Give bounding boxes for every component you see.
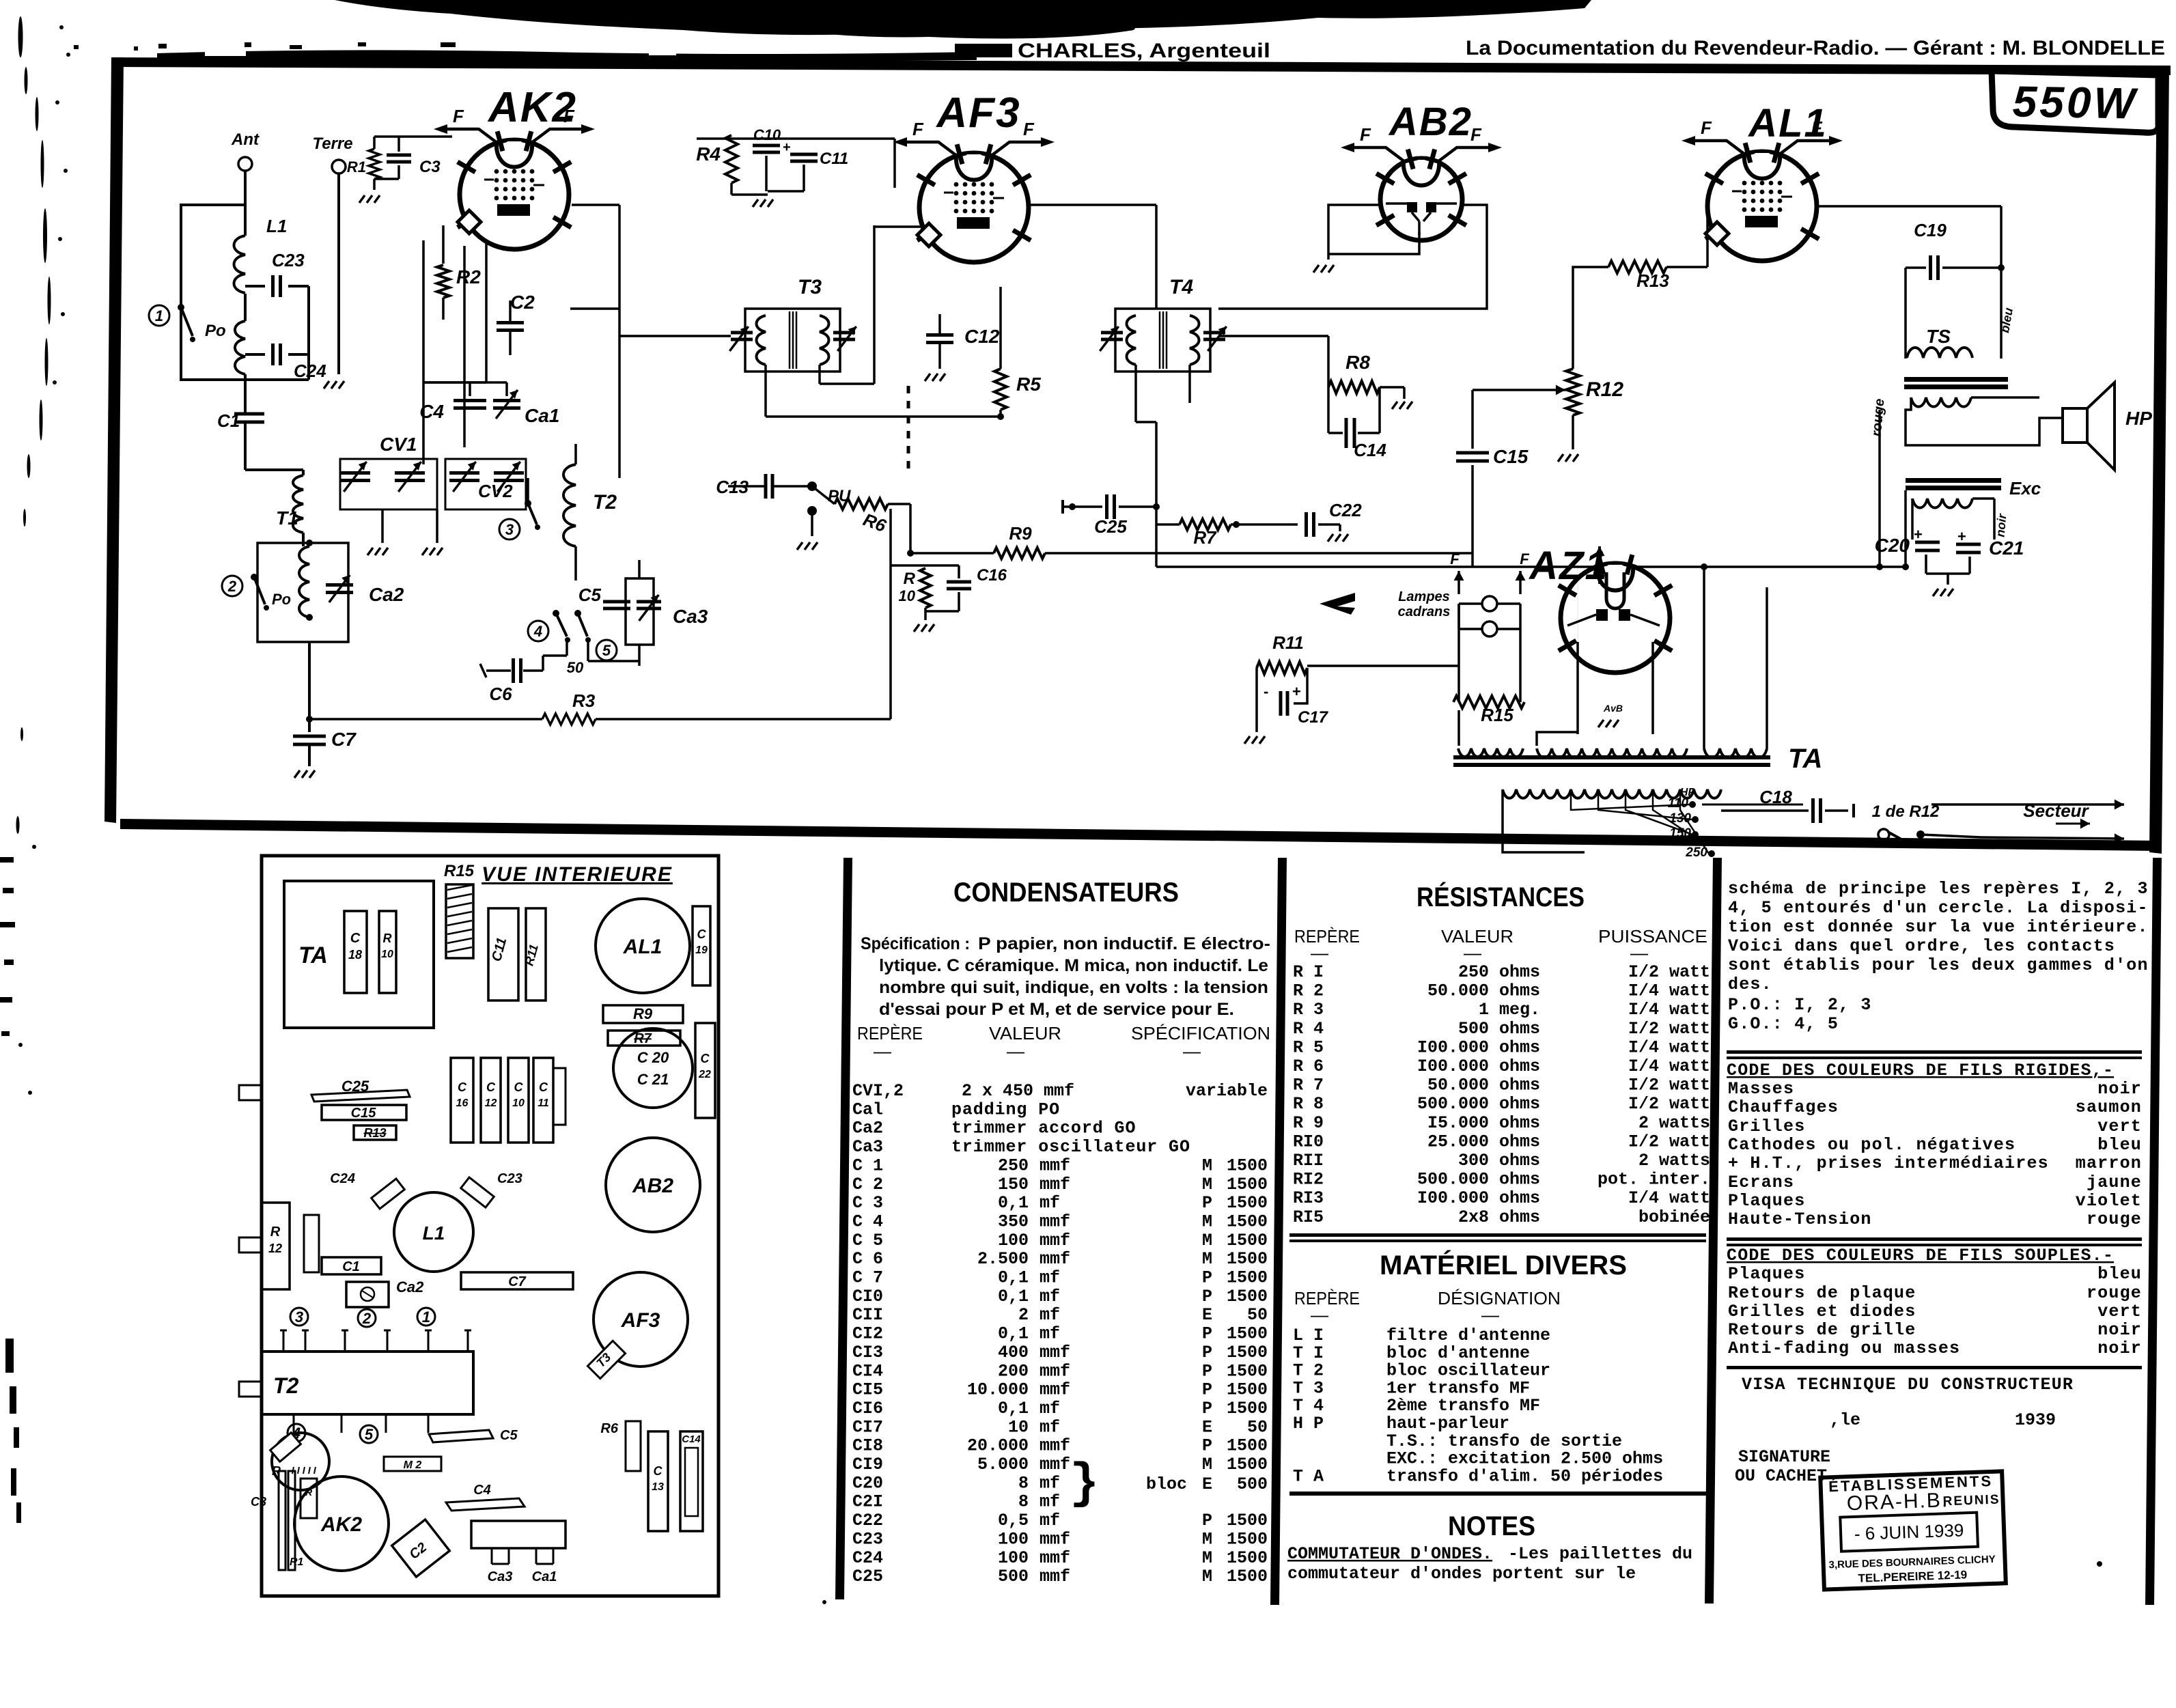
svg-text:C5: C5 (500, 1428, 518, 1443)
svg-text:500.000 ohms: 500.000 ohms (1417, 1094, 1540, 1114)
svg-text:VISA TECHNIQUE DU CONSTRUCTEUR: VISA TECHNIQUE DU CONSTRUCTEUR (1742, 1375, 2074, 1395)
svg-text:noir: noir (2097, 1320, 2142, 1340)
svg-text:500: 500 (998, 1567, 1029, 1586)
svg-text:jaune: jaune (2087, 1173, 2142, 1192)
svg-text:vert: vert (2097, 1117, 2142, 1136)
svg-text:rouge: rouge (2087, 1209, 2142, 1229)
svg-text:+: + (1292, 683, 1301, 700)
svg-text:P: P (1202, 1324, 1212, 1344)
svg-text:100: 100 (998, 1548, 1029, 1568)
svg-text:TA: TA (298, 942, 328, 968)
svg-text:M: M (1202, 1175, 1212, 1194)
svg-text:R7: R7 (1193, 527, 1217, 548)
svg-text:—: — (1630, 942, 1648, 963)
svg-text:C4: C4 (419, 401, 444, 422)
svg-text:1500: 1500 (1227, 1231, 1268, 1250)
svg-text:Chauffages: Chauffages (1728, 1097, 1839, 1117)
svg-text:50: 50 (1247, 1305, 1268, 1325)
svg-text:C7: C7 (331, 729, 357, 750)
svg-text:REUNIS: REUNIS (1942, 1492, 2000, 1509)
svg-text:R1: R1 (347, 158, 366, 176)
svg-text:0,1: 0,1 (998, 1193, 1029, 1213)
svg-text:mmf: mmf (1040, 1380, 1070, 1400)
svg-text:150: 150 (998, 1175, 1029, 1194)
svg-text:mf: mf (1040, 1324, 1060, 1344)
svg-text:P: P (1202, 1511, 1212, 1530)
svg-text:C16: C16 (977, 566, 1007, 585)
svg-text:1500: 1500 (1227, 1455, 1268, 1474)
svg-text:filtre d'antenne: filtre d'antenne (1386, 1326, 1550, 1345)
svg-text:10: 10 (512, 1097, 525, 1109)
svg-text:CII: CII (852, 1305, 883, 1325)
svg-text:I/4 watt: I/4 watt (1628, 1188, 1710, 1208)
svg-text:bloc: bloc (1146, 1474, 1187, 1494)
svg-text:C24: C24 (330, 1171, 355, 1186)
svg-text:C4: C4 (473, 1483, 491, 1498)
svg-text:—: — (1007, 1041, 1024, 1061)
svg-text:AK2: AK2 (320, 1513, 362, 1536)
svg-text:C 6: C 6 (852, 1249, 883, 1269)
svg-text:R5: R5 (1016, 374, 1041, 395)
svg-text:F: F (453, 106, 464, 126)
svg-text:schéma de principe les repères: schéma de principe les repères I, 2, 3 (1728, 879, 2149, 899)
svg-text:mf: mf (1040, 1492, 1060, 1512)
svg-text:Plaques: Plaques (1728, 1191, 1805, 1211)
svg-text:500 ohms: 500 ohms (1458, 1019, 1540, 1039)
svg-text:0,1: 0,1 (998, 1324, 1029, 1344)
svg-text:CV1: CV1 (380, 434, 417, 455)
svg-text:trimmer accord GO: trimmer accord GO (951, 1119, 1136, 1138)
svg-text:100: 100 (998, 1529, 1029, 1549)
svg-text:250: 250 (1685, 845, 1707, 860)
svg-text:R 7: R 7 (1293, 1076, 1324, 1095)
svg-text:C25: C25 (852, 1567, 883, 1586)
svg-text:T3: T3 (798, 276, 822, 298)
svg-text:F: F (1360, 124, 1371, 145)
svg-text:CI9: CI9 (852, 1455, 883, 1474)
svg-text:mmf: mmf (1040, 1175, 1070, 1194)
svg-text:L I: L I (1293, 1326, 1324, 1345)
svg-text:C: C (514, 1080, 524, 1094)
svg-text:Ca3: Ca3 (852, 1137, 883, 1157)
svg-text:8: 8 (1018, 1473, 1029, 1493)
svg-text:C15: C15 (351, 1106, 377, 1121)
svg-text:1500: 1500 (1227, 1249, 1268, 1269)
svg-text:C 5: C 5 (852, 1231, 883, 1250)
svg-text:1939: 1939 (2015, 1410, 2056, 1430)
svg-text:+: + (783, 140, 791, 155)
svg-text:200: 200 (998, 1361, 1029, 1381)
svg-text:C17: C17 (1298, 708, 1329, 727)
svg-text:M: M (1202, 1212, 1212, 1231)
svg-text:R 3: R 3 (1293, 1000, 1324, 1020)
svg-text:1500: 1500 (1227, 1567, 1268, 1586)
svg-text:R8: R8 (1345, 352, 1370, 373)
svg-text:C23: C23 (272, 250, 305, 270)
svg-text:R: R (904, 570, 916, 588)
svg-text:Plaques: Plaques (1728, 1264, 1805, 1284)
svg-text:CI5: CI5 (852, 1380, 883, 1400)
svg-text:1500: 1500 (1227, 1175, 1268, 1194)
svg-text:I/2 watt: I/2 watt (1628, 1019, 1710, 1039)
svg-text:C 21: C 21 (637, 1071, 669, 1088)
svg-text:VUE INTERIEURE: VUE INTERIEURE (482, 863, 673, 886)
svg-text:C11: C11 (820, 150, 848, 168)
svg-text:}: } (1070, 1456, 1099, 1512)
svg-text:I/2 watt: I/2 watt (1628, 1132, 1710, 1151)
svg-text:mf: mf (1040, 1287, 1060, 1306)
svg-text:F: F (1520, 550, 1529, 568)
svg-text:1500: 1500 (1227, 1548, 1268, 1568)
svg-text:50: 50 (1247, 1417, 1268, 1437)
svg-text:bloc oscillateur: bloc oscillateur (1386, 1361, 1550, 1381)
svg-text:500: 500 (1237, 1474, 1268, 1494)
svg-text:250: 250 (998, 1156, 1029, 1175)
svg-text:1500: 1500 (1227, 1380, 1268, 1400)
svg-text:1500: 1500 (1227, 1212, 1268, 1231)
svg-text:M 2: M 2 (404, 1459, 422, 1471)
svg-text:E: E (1202, 1474, 1212, 1494)
svg-text:1 de R12: 1 de R12 (1872, 802, 1940, 821)
svg-text:1500: 1500 (1227, 1399, 1268, 1418)
svg-text:R2: R2 (456, 266, 481, 288)
svg-text:Grilles: Grilles (1728, 1117, 1805, 1136)
svg-text:R 2: R 2 (1293, 981, 1324, 1001)
svg-text:110: 110 (1668, 796, 1689, 811)
svg-text:H P: H P (1293, 1414, 1324, 1433)
svg-text:Lampes: Lampes (1398, 589, 1450, 604)
svg-text:8: 8 (1018, 1492, 1029, 1512)
svg-text:2 x 450 mmf: 2 x 450 mmf (962, 1081, 1074, 1101)
svg-text:OU CACHET: OU CACHET (1735, 1466, 1827, 1486)
svg-text:P: P (1202, 1380, 1212, 1400)
svg-text:10.000: 10.000 (967, 1380, 1029, 1400)
svg-text:P.O.: I, 2, 3: P.O.: I, 2, 3 (1728, 995, 1872, 1015)
svg-text:Ca1: Ca1 (532, 1569, 557, 1584)
svg-text:C3: C3 (251, 1495, 266, 1509)
svg-text:C25: C25 (1094, 516, 1127, 537)
svg-text:P: P (1202, 1193, 1212, 1213)
svg-text:Spécification :: Spécification : (861, 934, 970, 953)
svg-text:T 4: T 4 (1293, 1396, 1324, 1416)
svg-text:C 1: C 1 (852, 1156, 883, 1175)
svg-text:3: 3 (295, 1308, 303, 1326)
svg-text:,le: ,le (1830, 1410, 1860, 1430)
svg-text:transfo d'alim. 50 périodes: transfo d'alim. 50 périodes (1386, 1466, 1663, 1486)
svg-text:mf: mf (1040, 1511, 1060, 1530)
svg-text:1500: 1500 (1227, 1287, 1268, 1306)
svg-text:mmf: mmf (1040, 1529, 1070, 1549)
svg-text:10: 10 (1008, 1417, 1029, 1437)
svg-text:R I: R I (1293, 962, 1324, 982)
svg-text:25.000 ohms: 25.000 ohms (1427, 1132, 1540, 1151)
svg-text:E: E (1202, 1305, 1212, 1325)
svg-text:bloc d'antenne: bloc d'antenne (1386, 1343, 1530, 1363)
svg-text:C14: C14 (1354, 440, 1386, 460)
svg-text:C5: C5 (578, 585, 602, 605)
svg-text:R: R (383, 932, 392, 945)
svg-text:50: 50 (567, 659, 584, 676)
svg-text:CONDENSATEURS: CONDENSATEURS (953, 878, 1179, 908)
svg-text:C21: C21 (1989, 537, 2024, 559)
svg-text:F: F (1023, 119, 1035, 139)
svg-text:Ca3: Ca3 (673, 606, 708, 627)
svg-text:T2: T2 (273, 1373, 299, 1398)
svg-text:2ème transfo MF: 2ème transfo MF (1386, 1396, 1540, 1416)
svg-text:5: 5 (602, 642, 611, 659)
svg-text:CODE DES COULEURS DE FILS SOUP: CODE DES COULEURS DE FILS SOUPLES.- (1727, 1246, 2114, 1265)
svg-text:P: P (1202, 1436, 1212, 1456)
svg-text:P papier, non inductif. E élec: P papier, non inductif. E électro- (978, 934, 1270, 953)
svg-text:TS: TS (1926, 326, 1951, 347)
svg-text:RI2: RI2 (1293, 1170, 1324, 1190)
svg-text:AF3: AF3 (935, 89, 1020, 137)
svg-text:C: C (458, 1080, 467, 1094)
svg-text:1er transfo MF: 1er transfo MF (1386, 1378, 1530, 1398)
svg-text:R15: R15 (1481, 705, 1514, 725)
svg-text:Po: Po (205, 322, 226, 340)
svg-text:C23: C23 (852, 1529, 883, 1549)
svg-text:R12: R12 (1586, 378, 1623, 401)
svg-text:La Documentation du Revende: La Documentation du Revendeur-Radio. — G… (1466, 37, 2165, 59)
svg-text:500.000 ohms: 500.000 ohms (1417, 1170, 1540, 1190)
svg-text:trimmer oscillateur GO: trimmer oscillateur GO (951, 1137, 1190, 1157)
svg-text:R6: R6 (600, 1421, 618, 1436)
svg-text:C: C (697, 927, 707, 941)
svg-text:mf: mf (1040, 1268, 1060, 1288)
svg-text:—: — (1183, 1041, 1201, 1061)
svg-text:bleu: bleu (2097, 1264, 2142, 1284)
svg-text:AvB: AvB (1603, 703, 1623, 714)
svg-text:Secteur: Secteur (2023, 800, 2089, 821)
svg-text:Retours de grille: Retours de grille (1728, 1320, 1916, 1340)
svg-text:1: 1 (422, 1308, 430, 1326)
svg-text:C15: C15 (1493, 446, 1529, 467)
svg-text:C 7: C 7 (852, 1268, 883, 1288)
svg-text:CVI,2: CVI,2 (852, 1081, 904, 1101)
svg-text:350: 350 (998, 1212, 1029, 1231)
svg-text:HP: HP (1680, 787, 1696, 798)
svg-text:mmf: mmf (1040, 1156, 1070, 1175)
svg-text:R15: R15 (444, 862, 475, 880)
svg-text:mmf: mmf (1040, 1548, 1070, 1568)
svg-text:des.: des. (1728, 975, 1772, 994)
svg-text:R3: R3 (572, 690, 596, 711)
svg-text:R 4: R 4 (1293, 1019, 1324, 1039)
svg-text:T1: T1 (276, 507, 298, 529)
svg-text:Ca3: Ca3 (488, 1569, 513, 1584)
svg-text:PUISSANCE: PUISSANCE (1598, 926, 1707, 947)
svg-text:11: 11 (538, 1097, 549, 1109)
svg-text:I5.000 ohms: I5.000 ohms (1427, 1113, 1540, 1133)
svg-text:RII: RII (1293, 1151, 1324, 1171)
svg-text:C25: C25 (341, 1078, 369, 1095)
svg-text:CHARLES, Argenteuil: CHARLES, Argenteuil (1018, 40, 1270, 62)
svg-text:P: P (1202, 1399, 1212, 1418)
svg-text:VALEUR: VALEUR (989, 1023, 1061, 1044)
svg-text:0,1: 0,1 (998, 1268, 1029, 1288)
svg-text:5.000: 5.000 (977, 1455, 1029, 1474)
svg-text:+ H.T., prises intermédiaires: + H.T., prises intermédiaires (1728, 1153, 2049, 1173)
svg-text:F: F (1701, 117, 1712, 138)
svg-text:12: 12 (485, 1097, 497, 1109)
svg-text:CODE DES COULEURS DE FILS RIGI: CODE DES COULEURS DE FILS RIGIDES,- (1727, 1061, 2114, 1080)
svg-text:1500: 1500 (1227, 1343, 1268, 1362)
svg-text:R: R (305, 1487, 313, 1498)
svg-text:10: 10 (381, 949, 393, 960)
svg-text:AB2: AB2 (1388, 100, 1473, 144)
svg-text:2: 2 (227, 578, 237, 595)
svg-text:F: F (1450, 550, 1460, 568)
svg-text:AF3: AF3 (621, 1309, 660, 1332)
svg-text:C1: C1 (217, 410, 240, 431)
svg-text:rouge: rouge (2087, 1283, 2142, 1303)
svg-text:mf: mf (1040, 1193, 1060, 1213)
svg-text:violet: violet (2076, 1191, 2142, 1211)
svg-text:saumon: saumon (2076, 1097, 2142, 1117)
svg-text:R13: R13 (1636, 270, 1669, 291)
svg-text:R 9: R 9 (1293, 1113, 1324, 1133)
svg-text:250 ohms: 250 ohms (1458, 962, 1540, 982)
svg-text:CI7: CI7 (852, 1417, 883, 1437)
svg-text:M: M (1202, 1529, 1212, 1549)
svg-text:I00.000 ohms: I00.000 ohms (1417, 1056, 1540, 1076)
svg-text:1500: 1500 (1227, 1324, 1268, 1344)
svg-text:SPÉCIFICATION: SPÉCIFICATION (1131, 1023, 1270, 1044)
svg-text:Masses: Masses (1728, 1079, 1794, 1099)
svg-text:G.O.: 4, 5: G.O.: 4, 5 (1728, 1014, 1839, 1034)
svg-text:—: — (1311, 942, 1328, 963)
svg-text:3: 3 (505, 521, 514, 538)
svg-text:P: P (1202, 1268, 1212, 1288)
svg-text:1 meg.: 1 meg. (1479, 1000, 1540, 1020)
svg-text:Ant: Ant (231, 130, 260, 149)
svg-text:mf: mf (1040, 1417, 1060, 1437)
svg-text:20.000: 20.000 (967, 1436, 1029, 1456)
svg-text:Exc: Exc (2009, 478, 2041, 499)
svg-text:- 6 JUIN 1939: - 6 JUIN 1939 (1854, 1520, 1964, 1544)
svg-text:1500: 1500 (1227, 1436, 1268, 1456)
svg-text:Ca2: Ca2 (852, 1119, 883, 1138)
svg-text:T2: T2 (593, 491, 617, 514)
svg-text:C19: C19 (1914, 220, 1947, 240)
svg-text:+: + (1914, 526, 1923, 543)
svg-text:C2I: C2I (852, 1492, 883, 1512)
svg-text:C1: C1 (342, 1259, 360, 1274)
svg-text:mmf: mmf (1040, 1361, 1070, 1381)
svg-text:P: P (1202, 1287, 1212, 1306)
svg-text:CI8: CI8 (852, 1436, 883, 1456)
svg-text:10: 10 (899, 587, 916, 604)
svg-text:T4: T4 (1169, 276, 1193, 298)
svg-text:SIGNATURE: SIGNATURE (1738, 1447, 1830, 1467)
svg-text:C10: C10 (753, 126, 781, 143)
svg-text:C 3: C 3 (852, 1193, 883, 1213)
svg-text:1: 1 (155, 307, 163, 324)
svg-text:C2: C2 (510, 292, 535, 313)
svg-text:C24: C24 (294, 361, 326, 381)
svg-text:M: M (1202, 1156, 1212, 1175)
svg-text:13: 13 (652, 1481, 664, 1493)
svg-text:R 8: R 8 (1293, 1094, 1324, 1114)
svg-text:Haute-Tension: Haute-Tension (1728, 1209, 1872, 1229)
svg-text:Cathodes ou pol. négatives: Cathodes ou pol. négatives (1728, 1135, 2015, 1155)
svg-text:16: 16 (456, 1097, 469, 1109)
svg-text:mf: mf (1040, 1473, 1060, 1493)
svg-text:haut-parleur: haut-parleur (1386, 1414, 1509, 1433)
svg-text:C 2: C 2 (852, 1175, 883, 1194)
svg-text:I/4 watt: I/4 watt (1628, 1000, 1710, 1020)
svg-text:C12: C12 (964, 326, 1000, 347)
svg-text:0,5: 0,5 (998, 1511, 1029, 1530)
svg-text:T 2: T 2 (1293, 1361, 1324, 1381)
svg-text:TA: TA (1788, 744, 1822, 774)
svg-text:2 watts: 2 watts (1638, 1113, 1710, 1133)
svg-text:-: - (1264, 683, 1268, 700)
svg-text:2.500: 2.500 (977, 1249, 1029, 1269)
svg-text:RI5: RI5 (1293, 1207, 1324, 1227)
svg-text:mf: mf (1040, 1399, 1060, 1418)
svg-text:100: 100 (998, 1231, 1029, 1250)
svg-text:C: C (539, 1080, 548, 1094)
svg-text:mmf: mmf (1040, 1249, 1070, 1269)
svg-text:I/4 watt: I/4 watt (1628, 1056, 1710, 1076)
svg-text:CI2: CI2 (852, 1324, 883, 1344)
svg-text:C: C (350, 931, 361, 946)
svg-text:1500: 1500 (1227, 1193, 1268, 1213)
svg-text:—: — (1481, 1304, 1499, 1325)
svg-text:R11: R11 (1272, 632, 1304, 653)
svg-text:T.S.: transfo de sortie: T.S.: transfo de sortie (1386, 1431, 1622, 1451)
svg-text:Ecrans: Ecrans (1728, 1173, 1794, 1192)
svg-text:T I: T I (1293, 1343, 1324, 1363)
svg-text:C 4: C 4 (852, 1212, 883, 1231)
svg-text:I/2 watt: I/2 watt (1628, 962, 1710, 982)
svg-text:1500: 1500 (1227, 1156, 1268, 1175)
svg-text:4, 5 entourés d'un cercle. La: 4, 5 entourés d'un cercle. La disposi- (1728, 898, 2149, 918)
svg-text:Terre: Terre (312, 135, 352, 153)
svg-text:12: 12 (268, 1242, 282, 1255)
svg-text:0,1: 0,1 (998, 1287, 1029, 1306)
svg-text:AK2: AK2 (487, 84, 577, 131)
svg-text:R 5: R 5 (1293, 1037, 1324, 1057)
svg-text:P: P (1202, 1361, 1212, 1381)
svg-text:R9: R9 (633, 1005, 653, 1022)
svg-text:Ca1: Ca1 (525, 405, 559, 426)
svg-text:C14: C14 (682, 1433, 701, 1445)
svg-text:CI3: CI3 (852, 1343, 883, 1362)
svg-text:I00.000 ohms: I00.000 ohms (1417, 1037, 1540, 1057)
svg-text:-Les paillettes du: -Les paillettes du (1508, 1544, 1692, 1564)
svg-text:commutateur d'ondes portent: commutateur d'ondes portent sur le (1287, 1564, 1636, 1584)
svg-text:R4: R4 (696, 143, 721, 165)
svg-text:M: M (1202, 1231, 1212, 1250)
svg-text:1500: 1500 (1227, 1361, 1268, 1381)
svg-text:marron: marron (2076, 1153, 2142, 1173)
svg-text:tion est donnée sur la vue int: tion est donnée sur la vue intérieure. (1728, 917, 2149, 937)
svg-text:bleu: bleu (2097, 1135, 2142, 1155)
svg-text:Ca2: Ca2 (369, 584, 404, 605)
svg-text:MATÉRIEL DIVERS: MATÉRIEL DIVERS (1380, 1250, 1627, 1280)
svg-text:I/4 watt: I/4 watt (1628, 981, 1710, 1001)
svg-text:1500: 1500 (1227, 1268, 1268, 1288)
svg-text:mmf: mmf (1040, 1231, 1070, 1250)
svg-text:ORA-H.B.: ORA-H.B. (1846, 1489, 1949, 1515)
svg-text:—: — (1311, 1304, 1328, 1325)
svg-text:noir: noir (2097, 1079, 2142, 1099)
svg-text:CV2: CV2 (478, 481, 513, 501)
svg-text:C23: C23 (497, 1171, 522, 1186)
